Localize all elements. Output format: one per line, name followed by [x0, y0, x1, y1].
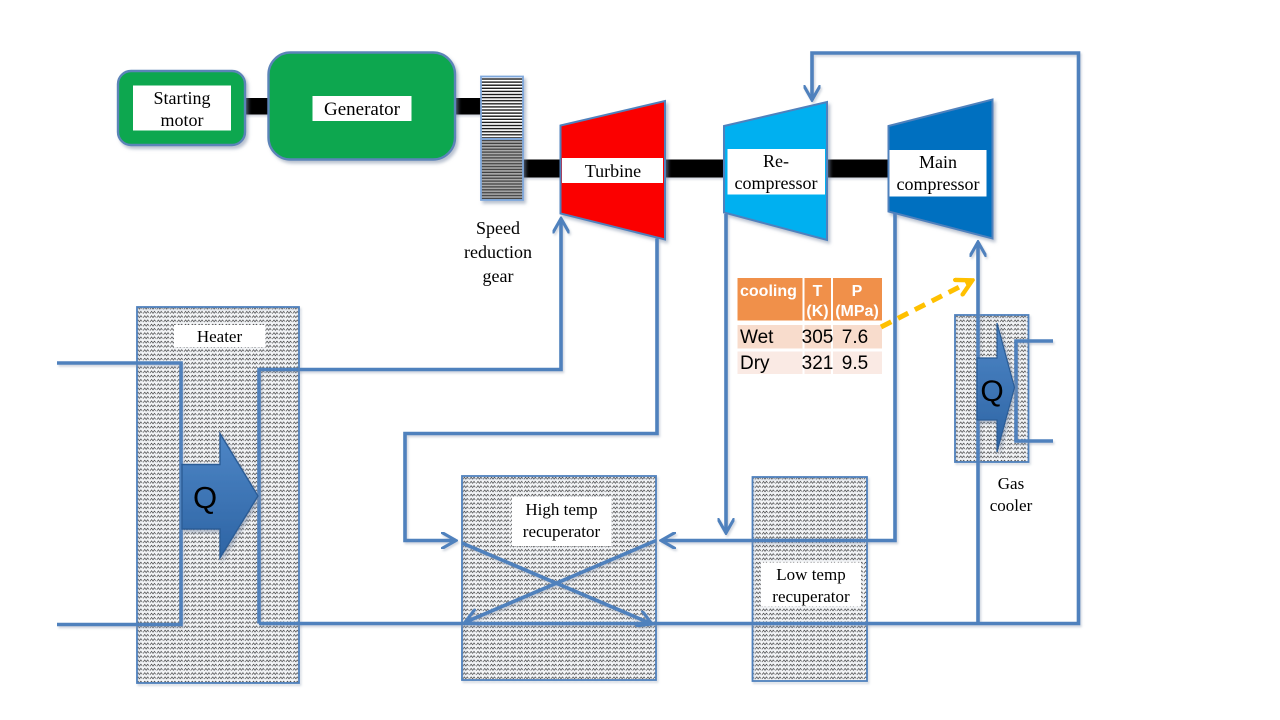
- svg-text:reduction: reduction: [464, 242, 532, 262]
- wire recuperator diagonal cold stream: [465, 541, 656, 623]
- svg-text:gear: gear: [483, 266, 514, 286]
- svg-text:Wet: Wet: [740, 327, 774, 348]
- row Wet: [738, 325, 803, 349]
- svg-text:compressor: compressor: [735, 173, 818, 193]
- low temp recuperator hatched body: [753, 477, 868, 681]
- high temp recuperator label plate: [512, 497, 611, 546]
- shaft generator-gear: [453, 98, 483, 115]
- turbine: [561, 101, 666, 240]
- heater Q arrow: [182, 434, 258, 559]
- svg-text:321: 321: [802, 353, 834, 374]
- row Dry: [738, 352, 803, 375]
- wire heater hot inlet: [57, 363, 181, 625]
- starting motor label plate: [133, 86, 231, 131]
- wire gas cooler riser to main compressor: [976, 242, 980, 624]
- low temp recuperator label plate: [761, 563, 861, 607]
- heater label plate: [174, 325, 265, 347]
- svg-text:Dry: Dry: [740, 353, 770, 374]
- wire gas cooler water U-pipe: [1016, 341, 1053, 441]
- svg-text:9.5: 9.5: [842, 353, 868, 374]
- pipes: [57, 53, 1079, 625]
- svg-text:(MPa): (MPa): [835, 303, 879, 320]
- turbine label plate: [562, 158, 663, 183]
- shaft turbine-recompressor: [663, 160, 726, 178]
- svg-text:High temp: High temp: [525, 500, 597, 519]
- svg-text:P: P: [852, 283, 863, 300]
- main compressor: [889, 100, 993, 239]
- svg-text:Speed: Speed: [476, 218, 520, 238]
- svg-text:Starting: Starting: [154, 88, 211, 108]
- wire turbine outlet to high temp recuperator: [405, 239, 657, 541]
- speed reduction gear: [481, 77, 523, 201]
- svg-text:cooling: cooling: [740, 283, 797, 300]
- svg-text:Q: Q: [980, 375, 1003, 408]
- svg-text:Generator: Generator: [324, 99, 401, 120]
- generator box: [269, 53, 456, 160]
- heater hatched body: [137, 307, 299, 683]
- svg-text:Q: Q: [193, 480, 217, 515]
- svg-text:compressor: compressor: [897, 174, 980, 194]
- svg-text:recuperator: recuperator: [772, 587, 850, 606]
- wire main compressor outlet to recuperator: [661, 214, 895, 541]
- wire main loop: bottom run, right riser, top run, into re-compressor: [259, 53, 1079, 624]
- re-compressor label plate: [728, 149, 826, 195]
- svg-text:recuperator: recuperator: [523, 522, 601, 541]
- gas cooler hatched body: [955, 315, 1029, 462]
- svg-text:Main: Main: [919, 152, 957, 172]
- svg-text:Low temp: Low temp: [776, 565, 845, 584]
- starting motor box: [118, 71, 245, 145]
- svg-text:305: 305: [802, 327, 834, 348]
- svg-text:Re-: Re-: [763, 151, 789, 171]
- re-compressor: [724, 102, 827, 240]
- table: cooling conditions: [738, 278, 883, 374]
- gas cooler Q arrow: [977, 323, 1015, 452]
- shaft motor-generator: [242, 98, 271, 115]
- svg-text:7.6: 7.6: [842, 327, 868, 348]
- svg-text:Gas: Gas: [998, 474, 1024, 493]
- wire re-compressor outlet down: [724, 214, 728, 533]
- yellow dashed annotation arrow: [881, 281, 972, 328]
- shaft gear-turbine: [520, 160, 563, 178]
- svg-text:Turbine: Turbine: [585, 161, 641, 181]
- high temp recuperator hatched body: [462, 476, 656, 680]
- svg-text:Heater: Heater: [197, 327, 243, 346]
- shaft recompressor-maincompressor: [826, 160, 890, 178]
- svg-text:T: T: [813, 283, 823, 300]
- svg-text:(K): (K): [806, 303, 828, 320]
- generator label plate: [313, 96, 412, 121]
- wire recuperator diagonal hot stream: [462, 543, 652, 624]
- svg-text:cooler: cooler: [990, 496, 1033, 515]
- main compressor label plate: [890, 150, 987, 197]
- wire heater to turbine inlet: [259, 219, 561, 624]
- header cells: [738, 278, 803, 321]
- svg-text:motor: motor: [161, 110, 204, 130]
